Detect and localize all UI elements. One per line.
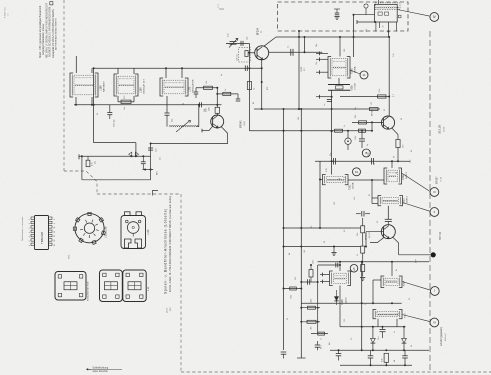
pin F205 input pins xyxy=(316,52,328,75)
svg-text:12: 12 xyxy=(54,235,56,237)
svg-text:Tr 30: Tr 30 xyxy=(440,176,443,182)
label L189 xyxy=(140,78,146,94)
svg-text:VI: VI xyxy=(433,321,436,325)
label margin 353-28 xyxy=(438,124,446,134)
wire bus y326 xyxy=(340,326,406,328)
svg-text:COIL AND IF-TRANSFORMER CONNEC: COIL AND IF-TRANSFORMER CONNECTIONS (sol… xyxy=(168,196,172,292)
capacitor C231 xyxy=(378,327,386,340)
footprint F208 right xyxy=(123,270,146,302)
wire bus y303 xyxy=(301,302,401,304)
diode D202 AA112 xyxy=(402,327,407,351)
svg-text:81: 81 xyxy=(369,194,371,196)
inductor L191 coil xyxy=(345,130,351,150)
resistor R202 xyxy=(357,246,365,264)
wire section divider horizontal y194 xyxy=(97,193,181,195)
transformer L189 xyxy=(114,68,138,102)
svg-text:L187A: L187A xyxy=(352,182,355,189)
label margin AA112 xyxy=(439,327,447,346)
label Q2 BF241 xyxy=(239,120,246,128)
capacitor C201 xyxy=(330,152,336,165)
inductor L172 variable xyxy=(169,105,199,132)
label footprint A xyxy=(88,281,90,301)
transformer F201 L187A xyxy=(320,175,348,185)
transformer F204 xyxy=(373,310,402,319)
svg-text:L173: L173 xyxy=(147,229,150,235)
wire left tail x283 end xyxy=(281,352,287,359)
label Q4 xyxy=(366,231,371,240)
svg-text:L190A8: L190A8 xyxy=(354,82,357,90)
terminal III xyxy=(402,173,439,196)
resistor R163 xyxy=(247,43,255,130)
label R194b xyxy=(394,156,396,158)
svg-text:11: 11 xyxy=(54,231,56,233)
resistor R181 xyxy=(370,101,379,110)
wire bus y261 xyxy=(318,261,430,263)
wire bus y228 xyxy=(283,227,361,229)
label L173 xyxy=(147,229,150,235)
transistor Q4 xyxy=(381,225,395,239)
wire bus y350 xyxy=(330,349,429,351)
capacitor C211 xyxy=(385,219,392,224)
svg-text:TBA641B: TBA641B xyxy=(40,232,44,244)
wire x340 seg xyxy=(339,286,341,327)
capacitor C161 xyxy=(241,36,249,46)
filter F206 ceramic xyxy=(328,78,350,90)
capacitor C221 xyxy=(308,260,315,285)
resistor R224 xyxy=(283,287,303,299)
wire bus y365 xyxy=(340,364,412,366)
label wiper direction xyxy=(87,366,123,373)
svg-text:L171: L171 xyxy=(189,86,192,92)
wire Q3 base join xyxy=(371,121,373,131)
label F203 xyxy=(403,196,409,204)
wire am bus y282 xyxy=(300,281,317,283)
svg-text:OSZIL: OSZIL xyxy=(301,65,303,72)
wire afc bus y156 xyxy=(79,154,151,159)
svg-text:13p: 13p xyxy=(124,107,126,110)
svg-text:14: 14 xyxy=(54,244,56,246)
wire F201 to F202 xyxy=(348,179,384,181)
svg-text:L189: L189 xyxy=(140,87,143,93)
svg-text:LC30: LC30 xyxy=(444,126,446,132)
svg-text:30: 30 xyxy=(287,318,289,320)
note pencil mark xyxy=(218,4,224,9)
svg-text:F203: F203 xyxy=(404,280,406,286)
wire trimmer feed y43 xyxy=(226,42,249,44)
wire dashed enclosure tuner box xyxy=(278,2,409,31)
svg-text:206k: 206k xyxy=(209,107,211,111)
svg-text:Stand : 100 1 gemessen am jew: Stand : 100 1 gemessen am jeweiligen Bau… xyxy=(39,5,42,58)
wire bus y105 xyxy=(74,104,221,106)
svg-text:III: III xyxy=(433,190,436,194)
note margin text tiny xyxy=(5,6,10,18)
wire rail x317 xyxy=(317,265,319,334)
svg-text:47k: 47k xyxy=(311,326,313,329)
node junction bus68 a xyxy=(93,67,251,69)
svg-text:353,28: 353,28 xyxy=(438,124,442,134)
ic TBA641B pinout xyxy=(29,216,56,250)
wire Q4 base xyxy=(365,232,384,248)
label Q1 xyxy=(258,28,264,35)
svg-text:220: 220 xyxy=(366,29,368,32)
svg-text:F281: F281 xyxy=(69,255,71,259)
terminal VI xyxy=(402,315,439,327)
svg-text:1n: 1n xyxy=(288,46,290,48)
svg-text:(4k): (4k) xyxy=(95,161,97,164)
resistor R222 xyxy=(300,320,320,329)
svg-text:5k: 5k xyxy=(354,269,356,271)
svg-text:AFC: AFC xyxy=(156,170,159,175)
svg-text:6: 6 xyxy=(29,223,31,224)
svg-text:40: 40 xyxy=(253,102,255,104)
transistor Q1 BF224 xyxy=(255,46,269,60)
svg-text:IB: IB xyxy=(365,151,368,155)
capacitor C212 xyxy=(356,211,370,217)
wire Q2 emitter loop xyxy=(150,127,228,145)
terminal K xyxy=(350,265,358,273)
resistor R201 xyxy=(357,218,365,246)
socket L195 L196 pinout xyxy=(73,212,105,244)
capacitor C233 xyxy=(402,350,408,365)
svg-text:LH 2,5p: LH 2,5p xyxy=(114,119,116,127)
svg-text:F201: F201 xyxy=(349,184,352,190)
capacitor C176 afc xyxy=(141,155,146,169)
transformer F205 L190A xyxy=(328,57,350,79)
resistor R193 xyxy=(355,129,366,139)
terminal IB xyxy=(362,149,370,157)
svg-text:wiper direction: wiper direction xyxy=(93,370,109,373)
resistor R176 afc xyxy=(86,156,96,166)
wire vertical x361 xyxy=(361,262,363,352)
svg-text:39k: 39k xyxy=(357,233,359,236)
svg-text:64: 64 xyxy=(289,253,291,255)
svg-text:L186: L186 xyxy=(100,85,103,91)
svg-text:64: 64 xyxy=(394,360,396,362)
svg-text:100: 100 xyxy=(298,117,300,120)
label F204 xyxy=(405,312,407,318)
wire long vertical x283 xyxy=(283,109,285,350)
capacitor C232 xyxy=(368,350,374,365)
capacitor C172 under L171 xyxy=(165,113,170,127)
terminal node black xyxy=(399,252,436,263)
svg-text:F208: F208 xyxy=(341,299,344,305)
svg-text:30: 30 xyxy=(324,241,326,243)
pin F208 pins xyxy=(320,273,330,284)
svg-text:234: 234 xyxy=(204,109,206,112)
svg-text:AGAINST SCHEDULE 1 ARROWHEAD: AGAINST SCHEDULE 1 ARROWHEADS KENN xyxy=(49,7,52,57)
wire bus y131 xyxy=(249,129,372,132)
resistor R173 xyxy=(196,81,217,90)
label margin BST xyxy=(435,176,443,240)
capacitor C164 on bus68 xyxy=(245,65,247,71)
svg-text:1,2k: 1,2k xyxy=(393,53,395,57)
resistor R186 xyxy=(118,95,134,104)
wire afc loop bottom xyxy=(82,179,151,181)
wire bus y161 xyxy=(315,160,410,162)
pin U1 pin stubs xyxy=(374,21,396,37)
svg-text:25: 25 xyxy=(409,298,411,300)
wire afc y169 xyxy=(142,169,153,171)
label F208 xyxy=(341,297,348,305)
wire Q2 base feed xyxy=(202,126,213,132)
label F206 xyxy=(351,82,357,91)
svg-text:2: 2 xyxy=(29,241,31,242)
footprint F208 left xyxy=(100,270,123,302)
capacitor C234 xyxy=(315,341,323,350)
svg-text:1k0: 1k0 xyxy=(304,250,306,253)
label footprint F208 xyxy=(148,286,150,291)
svg-text:BF241: BF241 xyxy=(239,120,243,128)
wire vertical x299 AM xyxy=(298,30,300,110)
svg-text:30: 30 xyxy=(411,345,413,347)
wire Q3 top xyxy=(388,97,390,117)
capacitor trimmer C160 xyxy=(226,32,238,47)
transformer F208 xyxy=(330,262,351,286)
svg-text:IIA: IIA xyxy=(355,170,358,174)
svg-text:5p: 5p xyxy=(221,74,223,76)
note legend text block xyxy=(39,2,58,58)
svg-text:L188.3: L188.3 xyxy=(406,172,408,179)
wire left tail x301 end xyxy=(297,357,306,359)
capacitor C181 xyxy=(324,100,332,107)
svg-text:30: 30 xyxy=(365,303,367,305)
label F202 xyxy=(402,172,408,180)
svg-text:OSZILLATOR: OSZILLATOR xyxy=(192,79,195,93)
svg-text:150n: 150n xyxy=(313,260,315,264)
svg-text:(243): (243) xyxy=(244,121,246,126)
label values scatter D xyxy=(97,74,306,320)
resistor R192 xyxy=(352,115,383,124)
capacitor C205 at U1 xyxy=(334,9,340,20)
label F201 xyxy=(349,182,355,190)
svg-text:64: 64 xyxy=(339,178,341,180)
svg-text:RATIODET: RATIODET xyxy=(103,80,106,92)
svg-text:4: 4 xyxy=(29,232,31,233)
wire left rail x320 xyxy=(319,161,321,229)
label L186 xyxy=(100,80,106,92)
svg-text:5p: 5p xyxy=(367,144,369,146)
svg-text:170k: 170k xyxy=(291,295,293,299)
socket L173 pinout xyxy=(121,212,146,249)
wire F205 top pin xyxy=(339,14,355,57)
svg-text:BF224: BF224 xyxy=(258,28,260,35)
label C171 xyxy=(114,119,116,127)
wire long vertical x301 xyxy=(300,109,302,358)
resistor R203 xyxy=(361,265,365,277)
wire Q1 emitter xyxy=(261,60,263,109)
wire afc loop left xyxy=(81,155,83,180)
svg-text:180: 180 xyxy=(344,49,346,52)
svg-text:Tabellenwerte = messwerte: Tabellenwerte = messwerte xyxy=(21,216,24,241)
capacitor C235 xyxy=(336,349,342,360)
label values scatter B xyxy=(326,107,398,196)
wire Q3 collector feed xyxy=(388,37,390,97)
svg-text:8n: 8n xyxy=(396,269,398,271)
capacitor C177 emitter xyxy=(148,148,157,152)
svg-text:1 2: 1 2 xyxy=(8,14,10,17)
label C173 xyxy=(206,107,211,112)
svg-text:1n: 1n xyxy=(344,125,346,127)
svg-text:F206: F206 xyxy=(351,85,354,91)
wire Q1 base xyxy=(248,52,254,54)
ic U1 tuner module xyxy=(375,0,402,22)
wire bus y246 xyxy=(283,246,361,248)
capacitor C163 xyxy=(288,46,294,56)
wire bus y109 xyxy=(254,108,380,110)
label afc xyxy=(156,157,162,175)
wire vertical x303 xyxy=(304,37,306,52)
wire afc drop x135 xyxy=(135,143,137,157)
diode D201 AA112 xyxy=(371,327,376,351)
svg-text:1k: 1k xyxy=(254,88,256,90)
svg-text:NB1 60 kV LF SIGNAL AMPLIF A: NB1 60 kV LF SIGNAL AMPLIF ARE MEASURED … xyxy=(45,2,48,58)
terminal IA xyxy=(350,70,368,79)
svg-text:90: 90 xyxy=(394,156,396,158)
svg-text:30: 30 xyxy=(383,26,385,28)
svg-text:Schleifrichtung: Schleifrichtung xyxy=(93,366,109,369)
svg-text:15p: 15p xyxy=(316,62,318,65)
diode D221 xyxy=(334,290,338,305)
transformer F203 L188 xyxy=(378,196,403,206)
svg-text:56p: 56p xyxy=(355,107,357,110)
svg-text:1n5: 1n5 xyxy=(354,197,356,200)
transformer L186 ratio detector xyxy=(70,56,98,105)
capacitor C174 xyxy=(194,88,199,98)
wire section divider bottom y372 xyxy=(181,371,491,373)
wire Q4 top feed xyxy=(387,206,389,219)
svg-text:3: 3 xyxy=(29,236,31,237)
wire F207 left pin xyxy=(373,280,381,303)
svg-text:BST 30: BST 30 xyxy=(439,231,442,240)
svg-text:1n: 1n xyxy=(324,104,326,106)
svg-text:40: 40 xyxy=(183,103,185,105)
svg-text:1k: 1k xyxy=(225,89,227,91)
wire Q3 emitter xyxy=(392,128,399,140)
wire x93 corner to afc xyxy=(94,142,136,144)
node junction bus105 xyxy=(75,104,218,106)
label oszillator xyxy=(301,65,306,72)
wire F204 pins down xyxy=(378,319,397,327)
resistor R220 xyxy=(309,264,313,282)
transformer F207 xyxy=(381,262,402,288)
wire bus y68 xyxy=(94,67,262,69)
label F281 tiny xyxy=(69,255,71,259)
label values scatter E xyxy=(289,94,413,362)
label note tabellen xyxy=(21,216,24,241)
svg-text:BF241: BF241 xyxy=(372,109,374,116)
terminal IV xyxy=(397,10,438,22)
svg-text:CSF 30: CSF 30 xyxy=(237,55,239,61)
svg-text:IA: IA xyxy=(363,73,366,77)
svg-text:40n: 40n xyxy=(329,342,331,345)
svg-text:30: 30 xyxy=(401,118,403,120)
wire am y265 xyxy=(318,263,341,268)
wire vertical x93 xyxy=(93,68,95,142)
svg-text:8,2k: 8,2k xyxy=(382,358,384,362)
svg-text:2n: 2n xyxy=(394,331,396,333)
svg-text:L195,L196: L195,L196 xyxy=(105,226,108,238)
resistor R231 xyxy=(382,353,389,365)
svg-text:AA112 (gepaart): AA112 (gepaart) xyxy=(439,327,443,346)
wire section divider jog xyxy=(64,171,97,194)
diode D171 afc pair xyxy=(129,152,139,157)
svg-text:F 204 F 207: F 204 F 207 xyxy=(5,6,7,18)
footprint F201-205 F207 F209 xyxy=(55,272,86,301)
label F205 xyxy=(351,66,357,74)
wire vertical x331 down xyxy=(331,90,333,174)
svg-text:BF167: BF167 xyxy=(435,176,439,184)
svg-text:ANTRWHEADS KENNZ WERTE: ANTRWHEADS KENNZ WERTE xyxy=(55,17,58,50)
label values scatter A xyxy=(253,29,395,120)
capacitor C191 xyxy=(359,130,365,148)
svg-text:100k: 100k xyxy=(311,299,313,303)
svg-text:L173: L173 xyxy=(167,307,169,313)
svg-text:30: 30 xyxy=(396,172,398,174)
wire Q4 collector low xyxy=(370,237,384,242)
wire afc loop right xyxy=(150,144,152,180)
svg-text:1k: 1k xyxy=(357,254,359,256)
svg-text:8: 8 xyxy=(54,219,56,220)
inductor L205 at U1 xyxy=(353,4,375,24)
terminal IIA xyxy=(353,168,361,176)
svg-text:13: 13 xyxy=(54,240,56,242)
capacitor C202 xyxy=(368,152,374,165)
wire Q1 collector diag xyxy=(264,37,276,46)
svg-text:10k: 10k xyxy=(206,81,208,84)
resistor R194 xyxy=(396,140,405,162)
svg-text:aufgelegt Plattenteller- me: aufgelegt Plattenteller- messw xyxy=(42,23,45,55)
capacitor C173 on bus xyxy=(200,102,202,107)
svg-text:9: 9 xyxy=(54,223,56,224)
label values scatter C xyxy=(324,197,413,347)
label spulen block header xyxy=(153,191,173,314)
wire Q1 collector out xyxy=(269,51,322,53)
wire F203 left pins xyxy=(372,180,378,204)
svg-text:40u: 40u xyxy=(160,157,162,160)
transformer L171 oscillator xyxy=(160,68,188,113)
svg-text:5: 5 xyxy=(29,228,31,229)
svg-text:L188.3: L188.3 xyxy=(407,196,409,203)
svg-text:0,2: 0,2 xyxy=(344,229,346,232)
resistor R191 xyxy=(340,89,390,98)
capacitor C171 xyxy=(107,105,112,119)
svg-text:225: 225 xyxy=(295,277,297,280)
transistor Q3 BF241 xyxy=(381,116,394,129)
svg-text:II: II xyxy=(434,210,436,214)
component shield dashed outline xyxy=(237,48,251,63)
svg-text:8,2k: 8,2k xyxy=(355,136,357,140)
resistor R221 xyxy=(300,299,320,309)
ground GND2 xyxy=(331,246,336,256)
svg-text:Spulen- u. Bandfilter-Anschlüs: Spulen- u. Bandfilter-Anschlüsse (Lötsei… xyxy=(164,208,168,294)
wire bus y37 xyxy=(276,36,390,38)
svg-text:25u: 25u xyxy=(321,346,323,349)
svg-text:464 mV: 464 mV xyxy=(445,333,447,341)
svg-text:02: 02 xyxy=(384,109,386,111)
svg-text:7: 7 xyxy=(29,219,31,220)
label L195 xyxy=(105,226,108,238)
svg-text:AA192: AA192 xyxy=(345,297,348,304)
label Q3 xyxy=(372,109,374,116)
svg-text:22k: 22k xyxy=(355,115,357,118)
svg-text:4,7k: 4,7k xyxy=(379,89,381,93)
terminal II xyxy=(403,203,439,217)
svg-text:0,7: 0,7 xyxy=(393,94,395,97)
wire section divider left vertical xyxy=(63,0,65,171)
svg-text:F201-205,F207,F209: F201-205,F207,F209 xyxy=(88,281,90,301)
svg-text:10n: 10n xyxy=(378,337,380,340)
resistor R174 xyxy=(217,89,238,96)
